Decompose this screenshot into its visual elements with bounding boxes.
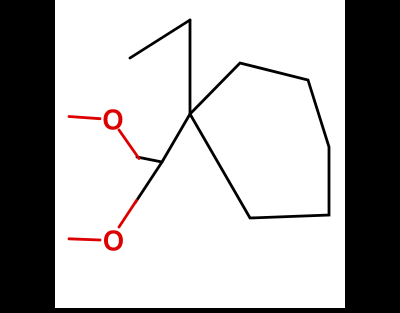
O top glyph <box>102 104 123 136</box>
white drawing area <box>55 0 345 308</box>
cyclohexane ring <box>190 63 329 218</box>
svg-text:O: O <box>102 104 123 136</box>
C1 to ring bond <box>162 114 190 162</box>
C1 to O-top bond: black half then red half <box>137 157 162 162</box>
substituent methyl bond <box>130 20 190 58</box>
methyl bottom bond <box>69 239 100 240</box>
svg-text:O: O <box>103 225 124 257</box>
C1 to O-bottom bond: black half then red half <box>135 162 162 203</box>
O bottom glyph <box>103 225 124 257</box>
methyl top bond <box>69 117 100 119</box>
substituent vertical bond <box>189 20 192 114</box>
